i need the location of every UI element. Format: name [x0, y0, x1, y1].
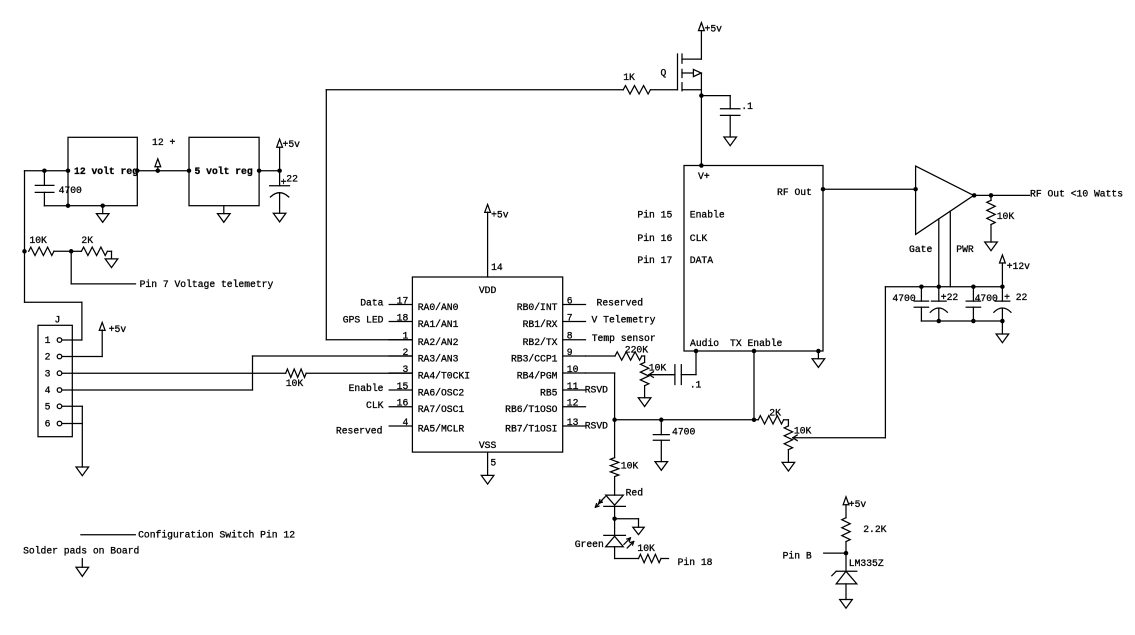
- svg-text:+5v: +5v: [705, 24, 723, 35]
- svg-text:CLK: CLK: [690, 233, 708, 244]
- svg-text:6: 6: [45, 419, 51, 430]
- svg-text:V Telemetry: V Telemetry: [592, 314, 656, 325]
- LED D1 Red: [595, 488, 643, 508]
- ground symbol under VR2: [782, 462, 795, 471]
- net label Pin 7 Voltage telemetry: [140, 279, 274, 290]
- wire bottom bus to ground: [1001, 321, 1003, 334]
- wire C8 to transmitter Audio pin: [681, 349, 698, 375]
- power symbol +5v at J pin 2: [99, 322, 126, 334]
- resistor R10 2.2K: [842, 518, 887, 553]
- net label V Telemetry at pin 7: [592, 314, 656, 325]
- wire VSS pin 5 to ground: [488, 452, 497, 475]
- svg-text:RA4/T0CKI: RA4/T0CKI: [418, 370, 470, 381]
- svg-text:+5v: +5v: [849, 499, 867, 510]
- svg-text:Pin 7 Voltage telemetry: Pin 7 Voltage telemetry: [140, 279, 274, 290]
- svg-text:9: 9: [567, 347, 573, 358]
- ground symbol below U3: [481, 475, 494, 484]
- U3 left pin 15 RA6/OSC2: [389, 381, 464, 399]
- power symbol +5v at regulator output: [277, 139, 300, 171]
- wire divider tap to Pin 7 label: [71, 251, 135, 284]
- wire 12V rail between regulators: [135, 168, 191, 173]
- svg-text:4700: 4700: [892, 293, 915, 304]
- svg-text:Temp sensor: Temp sensor: [592, 333, 656, 344]
- U3 left pin 18 RA1/AN1: [389, 312, 458, 330]
- svg-text:8: 8: [567, 331, 573, 342]
- U3 left pin 4 RA5/MCLR: [389, 417, 464, 435]
- ground symbol under 12 volt reg: [96, 206, 109, 223]
- power symbol +12v: [1000, 255, 1031, 287]
- svg-text:RB3/CCP1: RB3/CCP1: [511, 353, 558, 364]
- wire R4 to Q gate: [650, 89, 677, 91]
- svg-text:16: 16: [397, 398, 409, 409]
- svg-text:RB4/PGM: RB4/PGM: [517, 370, 558, 381]
- U3 left pin 1 RA2/AN2: [389, 331, 458, 349]
- svg-text:3: 3: [402, 364, 408, 375]
- svg-text:12 +: 12 +: [152, 137, 175, 148]
- wire TX Enable pin down to pin10 bus: [752, 349, 757, 420]
- capacitor C2 .22 polarized on 5V rail: [270, 171, 298, 214]
- net label Pin B: [783, 550, 846, 561]
- regulator U2 5 volt reg: [189, 137, 259, 205]
- net label Pin 18: [678, 557, 713, 568]
- svg-text:17: 17: [397, 295, 409, 306]
- wire input rail to 12V regulator: [25, 170, 69, 172]
- svg-text:+5v: +5v: [491, 209, 509, 220]
- svg-text:RA0/AN0: RA0/AN0: [418, 302, 459, 313]
- wire Q drain to V+ of transmitter: [699, 90, 704, 168]
- svg-text:RB5: RB5: [540, 387, 558, 398]
- connector J: [38, 315, 72, 437]
- capacitor C3 .1 drain bypass: [701, 96, 753, 137]
- ground symbol under 5 volt reg: [218, 206, 231, 223]
- connector J pin 6: [45, 419, 62, 430]
- ground symbol solder pads: [76, 559, 89, 577]
- svg-text:+: +: [281, 177, 287, 188]
- svg-text:5: 5: [45, 402, 51, 413]
- wire amplifier PWR lead down: [949, 211, 951, 287]
- svg-text:Reserved: Reserved: [597, 298, 644, 309]
- net label Reserved at pin 4: [336, 425, 383, 436]
- wire J pin 6 to ground rail: [62, 406, 82, 467]
- wire D2 anode to R9: [615, 547, 639, 559]
- net label Data at pin 17: [360, 298, 383, 309]
- svg-text:TX Enable: TX Enable: [730, 338, 783, 349]
- svg-text:RB0/INT: RB0/INT: [517, 302, 558, 313]
- wire J pin 4 to chip RA3: [62, 356, 412, 390]
- svg-text:RA2/AN2: RA2/AN2: [418, 337, 459, 348]
- net label RSVD at pin 13: [585, 421, 608, 432]
- wire VDD pin 14 to +5v: [488, 212, 503, 277]
- svg-text:LM335Z: LM335Z: [849, 558, 884, 569]
- net label RSVD at pin 11: [585, 385, 608, 396]
- svg-text:V+: V+: [698, 171, 710, 182]
- wire +12v filter top bus: [885, 284, 1004, 289]
- power symbol +5v above U3: [485, 204, 509, 220]
- net label 12 + with arrow: [152, 137, 175, 171]
- ground symbol under transmitter: [812, 359, 825, 368]
- svg-text:2K: 2K: [81, 235, 93, 246]
- svg-text:RA7/OSC1: RA7/OSC1: [418, 404, 465, 415]
- U3 left pin 3 RA4/T0CKI: [389, 364, 470, 382]
- temp sensor U5 LM335Z: [832, 553, 884, 599]
- wire top bus down to audio pot wiper: [793, 287, 886, 438]
- svg-text:18: 18: [397, 312, 409, 323]
- svg-text:+22: +22: [941, 292, 959, 303]
- svg-text:DATA: DATA: [690, 255, 713, 266]
- svg-text:Reserved: Reserved: [336, 425, 383, 436]
- svg-text:10K: 10K: [997, 211, 1015, 222]
- svg-text:2.2K: 2.2K: [863, 524, 886, 535]
- power symbol +5v for temp sensor: [843, 497, 866, 518]
- ground symbol under cap bank: [996, 334, 1009, 343]
- svg-text:2: 2: [45, 352, 51, 363]
- svg-text:10K: 10K: [649, 363, 667, 374]
- net label GPS LED at pin 18: [343, 314, 384, 325]
- svg-text:Pin B: Pin B: [783, 550, 812, 561]
- trimmer VR2 10K modulation: [784, 426, 811, 450]
- svg-text:Configuration Switch Pin 12: Configuration Switch Pin 12: [138, 529, 295, 540]
- svg-text:RB6/T1OSO: RB6/T1OSO: [505, 404, 558, 415]
- net label Reserved at pin 6: [597, 298, 644, 309]
- wire amplifier Gate lead down: [938, 219, 940, 287]
- svg-text:RB2/TX: RB2/TX: [523, 337, 558, 348]
- capacitor C8 .1 audio coupling: [675, 365, 702, 391]
- ground symbol after R2: [105, 251, 118, 267]
- wire 5V output rail: [257, 168, 282, 173]
- wire amplifier output: [972, 193, 1030, 198]
- net label Pin 16 for transmitter CLK: [637, 233, 672, 244]
- wire trimmer to ground: [644, 386, 646, 398]
- wire R7 to trimmer VR2: [784, 420, 789, 426]
- resistor R8 10K LED series: [610, 420, 638, 495]
- wire left rail down to connector pin 1: [25, 171, 82, 340]
- svg-text:RA5/MCLR: RA5/MCLR: [418, 423, 465, 434]
- wire filter bottom bus: [921, 319, 1004, 324]
- svg-text:+ 22: + 22: [1004, 292, 1027, 303]
- svg-text:10K: 10K: [621, 460, 639, 471]
- U3 right pin 10 RB4/PGM: [517, 364, 586, 382]
- node junction dots on 12V input rail: [42, 168, 70, 173]
- transmitter ground pin: [816, 349, 821, 359]
- wire R6 to trimmer: [642, 356, 645, 362]
- power symbol +5v at Q source: [699, 23, 723, 35]
- resistor R9 10K green LED: [637, 543, 668, 563]
- wire RB3 pin 9 to R6: [586, 355, 616, 357]
- resistor R1 10K voltage divider: [22, 235, 73, 256]
- svg-text:Green: Green: [575, 539, 604, 550]
- wire J pin 5 to ground rail: [62, 405, 82, 407]
- svg-text:J: J: [55, 315, 61, 326]
- net label Pin 17 for transmitter DATA: [637, 255, 672, 266]
- U3 right pin 9 RB3/CCP1: [511, 347, 586, 365]
- capacitor C7 22 polarized PWR filter: [994, 287, 1028, 321]
- wire trimmer wiper to C8: [649, 374, 675, 376]
- LED D2 Green: [575, 535, 634, 549]
- amplifier A1 triangle: [909, 166, 974, 255]
- svg-text:1K: 1K: [623, 72, 635, 83]
- ground symbol under C2: [273, 213, 286, 222]
- trimmer VR1 10K audio level: [640, 362, 675, 385]
- svg-text:14: 14: [491, 262, 503, 273]
- net label Pin 15 for transmitter Enable: [637, 209, 672, 220]
- resistor R5 10K on RF output: [987, 195, 1015, 242]
- svg-text:10: 10: [567, 364, 579, 375]
- svg-text:RA1/AN1: RA1/AN1: [418, 319, 459, 330]
- svg-text:Gate: Gate: [909, 244, 932, 255]
- U3 left pin 2 RA3/AN3: [389, 347, 458, 365]
- regulator U1 12 volt reg: [68, 137, 138, 205]
- net label RF Out <10 Watts: [1030, 188, 1123, 199]
- svg-text:RA6/OSC2: RA6/OSC2: [418, 387, 465, 398]
- resistor R3 10K in series with RA4: [286, 369, 307, 389]
- svg-text:.1: .1: [690, 380, 702, 391]
- ground symbol under R5: [985, 242, 998, 251]
- svg-text:12: 12: [567, 398, 579, 409]
- svg-text:RSVD: RSVD: [585, 385, 608, 396]
- resistor R4 1K gate resistor: [623, 72, 650, 94]
- svg-text:Pin 18: Pin 18: [678, 557, 713, 568]
- svg-text:+12v: +12v: [1007, 261, 1030, 272]
- svg-text:VSS: VSS: [479, 440, 497, 451]
- capacitor C5 22 polarized Gate filter: [930, 287, 958, 321]
- wire J pin 1 to divider rail: [62, 339, 82, 341]
- svg-text:+5v: +5v: [109, 324, 127, 335]
- svg-text:Pin 15: Pin 15: [637, 209, 672, 220]
- connector J pin 1: [45, 335, 62, 346]
- wire R3 to chip RA4: [306, 372, 412, 374]
- svg-text:4700: 4700: [975, 293, 998, 304]
- ground symbol under LM335Z: [840, 600, 853, 609]
- U3 right pin 13 RB7/T1OSI: [505, 417, 585, 435]
- svg-text:Pin 16: Pin 16: [637, 233, 672, 244]
- capacitor C6 4700 PWR filter: [966, 287, 998, 321]
- svg-text:Pin 17: Pin 17: [637, 255, 672, 266]
- svg-text:RA3/AN3: RA3/AN3: [418, 353, 459, 364]
- wire J pin 3 toward RA4: [62, 372, 285, 374]
- svg-text:Enable: Enable: [349, 383, 384, 394]
- svg-text:Enable: Enable: [690, 209, 725, 220]
- U3 left pin 17 RA0/AN0: [389, 295, 458, 313]
- svg-text:4: 4: [45, 385, 51, 396]
- wire RA2 pin 1 up and across to R4: [326, 90, 623, 340]
- wire RB4 pin 10 down to bus: [586, 373, 615, 420]
- svg-text:.1: .1: [741, 101, 753, 112]
- connector J pin 5: [45, 402, 62, 413]
- net label CLK at pin 16: [366, 400, 384, 411]
- wire junction to LED ground: [615, 519, 639, 528]
- svg-text:CLK: CLK: [366, 400, 384, 411]
- ground symbol below connector J: [76, 467, 89, 476]
- U3 right pin 6 RB0/INT: [517, 295, 586, 313]
- svg-text:7: 7: [567, 312, 573, 323]
- connector J pin 2: [45, 352, 62, 363]
- net label Temp sensor at pin 8: [592, 333, 656, 344]
- svg-text:Red: Red: [626, 488, 643, 499]
- svg-text:11: 11: [567, 381, 579, 392]
- svg-text:5: 5: [490, 458, 496, 469]
- svg-text:220K: 220K: [625, 344, 648, 355]
- node Pin B junction: [844, 551, 849, 556]
- capacitor C4 4700 Gate filter: [892, 287, 928, 321]
- svg-text:10K: 10K: [286, 378, 304, 389]
- net label Configuration Switch Pin 12: [138, 529, 295, 540]
- svg-text:RB7/T1OSI: RB7/T1OSI: [505, 423, 557, 434]
- svg-text:+5v: +5v: [283, 139, 301, 150]
- wire regulator ground bus: [44, 203, 105, 208]
- U3 right pin 11 RB5: [540, 381, 585, 399]
- ground symbol under C9: [655, 462, 668, 471]
- net label Enable at pin 15: [349, 383, 384, 394]
- svg-text:5 volt reg: 5 volt reg: [195, 166, 253, 177]
- U3 right pin 7 RB1/RX: [523, 312, 586, 330]
- svg-text:4700: 4700: [59, 185, 82, 196]
- svg-text:Audio: Audio: [690, 338, 719, 349]
- wire Q source to +5v: [700, 31, 702, 60]
- U3 left pin 16 RA7/OSC1: [389, 398, 464, 416]
- svg-text:3: 3: [45, 368, 51, 379]
- svg-text:1: 1: [45, 335, 51, 346]
- ground symbol under VR1: [638, 398, 651, 407]
- svg-text:4: 4: [402, 417, 408, 428]
- svg-text:13: 13: [567, 417, 579, 428]
- wire J pin 2 to +5v: [62, 330, 102, 357]
- svg-text:GPS LED: GPS LED: [343, 314, 384, 325]
- svg-text:Solder pads on Board: Solder pads on Board: [23, 546, 139, 557]
- capacitor C9 4700 on pin10 net: [653, 420, 695, 462]
- svg-text:VDD: VDD: [479, 285, 497, 296]
- transmitter module U4: [684, 166, 823, 352]
- svg-text:RF Out <10 Watts: RF Out <10 Watts: [1030, 188, 1123, 199]
- svg-text:4700: 4700: [672, 426, 695, 437]
- resistor R7 2K: [758, 407, 783, 424]
- svg-text:Data: Data: [360, 298, 383, 309]
- svg-text:PWR: PWR: [956, 244, 974, 255]
- resistor R6 220K: [615, 344, 648, 360]
- svg-text:12 volt reg: 12 volt reg: [74, 166, 138, 177]
- wire D1 cathode to junction: [612, 506, 617, 535]
- svg-text:15: 15: [397, 381, 409, 392]
- wire RF Out to amplifier: [821, 187, 918, 192]
- ground symbol under C3: [724, 137, 737, 146]
- svg-text:Q: Q: [661, 68, 667, 79]
- U3 right pin 8 RB2/TX: [523, 331, 586, 349]
- net label Solder pads on Board: [23, 546, 139, 557]
- svg-text:22: 22: [286, 173, 298, 184]
- svg-text:2: 2: [402, 347, 408, 358]
- microcontroller U3 PIC: [412, 277, 562, 452]
- wire configuration switch leader line: [81, 534, 135, 536]
- capacitor C1 4700 input filter: [35, 171, 82, 206]
- wire pin10 horizontal bus: [612, 418, 758, 423]
- connector J pin 3: [45, 368, 62, 379]
- svg-text:RSVD: RSVD: [585, 421, 608, 432]
- svg-text:2K: 2K: [769, 407, 781, 418]
- svg-text:RB1/RX: RB1/RX: [523, 319, 558, 330]
- connector J pin 4: [45, 385, 62, 396]
- svg-text:10K: 10K: [637, 543, 655, 554]
- svg-text:10K: 10K: [29, 235, 47, 246]
- svg-text:RF Out: RF Out: [777, 187, 812, 198]
- transistor Q P-MOSFET: [661, 54, 702, 91]
- wire VR2 to ground: [787, 450, 789, 463]
- svg-text:6: 6: [567, 295, 573, 306]
- U3 right pin 12 RB6/T1OSO: [505, 398, 585, 416]
- resistor R2 2K voltage divider: [71, 235, 111, 256]
- ground symbol for LEDs: [633, 527, 644, 534]
